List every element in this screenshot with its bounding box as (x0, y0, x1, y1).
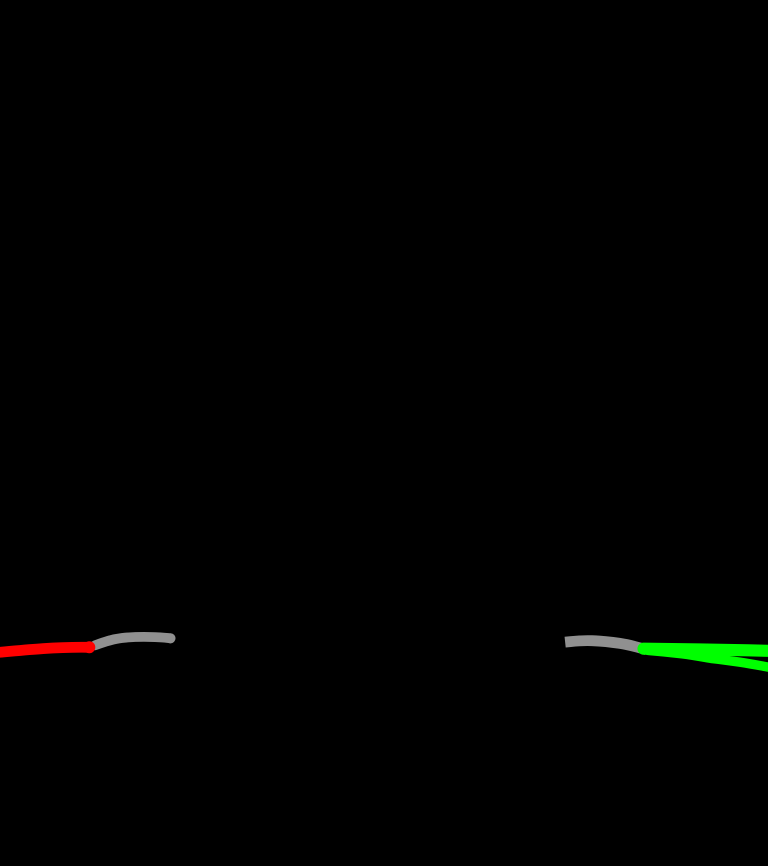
wire: green lead lower branch (right) (648, 650, 768, 667)
wire: left probe gray tip end blob (165, 633, 175, 643)
wire: right probe gray tip (571, 641, 642, 649)
wire: left probe gray tip (95, 637, 170, 645)
wire: red lead end blob (83, 641, 95, 653)
wire: green lead upper branch (right) (644, 649, 768, 651)
wire: red lead (left) (0, 647, 89, 652)
